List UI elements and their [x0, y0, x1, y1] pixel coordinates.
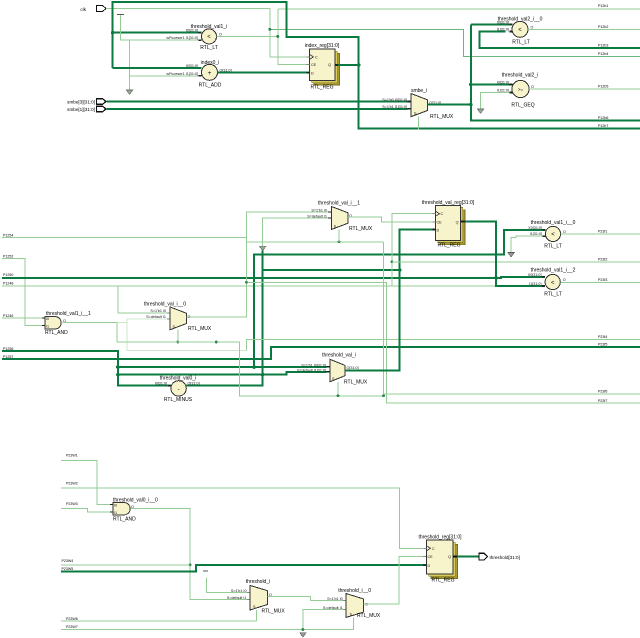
wire P12b3 net from LT2 I1 (thick) [479, 32, 640, 49]
wire val_i S stub [337, 382, 339, 396]
wire val_i__1 S vertical x383.5 [384, 242, 640, 394]
wire net P23f7 from output riser via 282.3 [246, 282, 640, 403]
svg-text:I0[31:0]: I0[31:0] [497, 20, 509, 24]
wire net P23f2 [392, 261, 640, 263]
wire threshold_i S down-left to P23W6 [61, 610, 256, 621]
wire val_i__1 output jog to reg CE [348, 217, 433, 222]
svg-text:P23W2: P23W2 [66, 482, 78, 486]
svg-text:RTL_REG: RTL_REG [438, 243, 461, 249]
wire net P23W3 to AND I1 [61, 508, 113, 512]
wire net P1256 (thick) down to MINUS I0 [2, 351, 171, 386]
svg-text:RTL_MUX: RTL_MUX [344, 380, 368, 386]
svg-text:I0: I0 [114, 504, 117, 508]
svg-text:I1[31:0]: I1[31:0] [529, 282, 541, 286]
port threshold[31:0] output [479, 553, 520, 560]
wire branch to threshold_val_reg D (thick) [263, 230, 433, 271]
svg-text:RTL_MUX: RTL_MUX [262, 609, 286, 615]
svg-text:S=1'b1 I1[31:0]: S=1'b1 I1[31:0] [382, 105, 407, 109]
register threshold_reg[31:0] RTL_REG [418, 534, 462, 583]
wire smbe_i S stub [418, 117, 420, 130]
ground arrow below GEQ I1 [477, 109, 484, 114]
svg-text:S=1'b1 I0: S=1'b1 I0 [311, 208, 327, 212]
svg-text:C: C [441, 212, 444, 216]
arrow-net stub feeding LT1__0 I1 [511, 236, 542, 253]
node junction index_reg Q [357, 63, 361, 67]
svg-text:S=default I1: S=default I1 [146, 315, 166, 319]
svg-text:I0[31:0]: I0[31:0] [186, 29, 198, 33]
wire net P23W7 ground line [61, 617, 353, 629]
gate threshold_val1_i__1 RTL_AND [42, 311, 91, 336]
svg-text:CE: CE [437, 220, 443, 224]
svg-text:D: D [311, 71, 314, 75]
wire smbe_i output to vertical (thick) [428, 104, 471, 106]
svg-text:RTL_LT: RTL_LT [512, 40, 530, 46]
wire ADD output to index_reg D (thick) [218, 72, 310, 74]
svg-text:threshold[31:0]: threshold[31:0] [490, 555, 520, 560]
svg-text:S=default I1: S=default I1 [227, 596, 247, 600]
wire branch val_i I1 (thick) [118, 372, 327, 375]
svg-text:P1248: P1248 [3, 282, 13, 286]
svg-text:threshold_i__0: threshold_i__0 [338, 588, 371, 594]
mux threshold_val_i__1 RTL_MUX [307, 201, 373, 233]
svg-text:RTL_MUX: RTL_MUX [349, 226, 373, 232]
svg-text:P12b6: P12b6 [598, 116, 608, 120]
port clk [80, 6, 106, 13]
wire net P1257 (thick) jog to P23f5 [2, 347, 640, 359]
wire net P23W2 to threshold_reg C [61, 488, 427, 548]
svg-text:C: C [432, 547, 435, 551]
svg-text:S=default I1: S=default I1 [307, 214, 327, 218]
wire ADD I0 (thick) [113, 67, 202, 69]
svg-text:P23W7: P23W7 [66, 625, 78, 629]
svg-text:S=default I1[31:0]: S=default I1[31:0] [297, 368, 326, 372]
svg-text:D: D [428, 564, 431, 568]
svg-text:RTL_GEQ: RTL_GEQ [511, 103, 534, 109]
wire I1 feed vertical from ground line [303, 610, 343, 630]
dash mark [203, 570, 208, 572]
svg-text:P23f2: P23f2 [598, 258, 607, 262]
svg-text:threshold_i: threshold_i [246, 579, 270, 585]
svg-text:smbe_i: smbe_i [411, 88, 427, 94]
svg-text:CE: CE [311, 63, 317, 67]
svg-text:RTL_AND: RTL_AND [45, 330, 68, 336]
register threshold_val_reg[31:0] RTL_REG [422, 200, 475, 248]
wire net P23W4 joining AND-out vertical [61, 564, 190, 566]
svg-text:P23f4: P23f4 [598, 335, 607, 339]
wire bus 254.3 left end handled above; op-amp threshold_val1_i__0 RTL_LT [528, 220, 575, 250]
wire LT1 output to index_reg CE [217, 35, 278, 37]
svg-text:P23W1: P23W1 [66, 454, 78, 458]
svg-text:wPcoeser1 I1[31:0]: wPcoeser1 I1[31:0] [166, 72, 198, 76]
wire LT2 output to P12b2 [528, 28, 640, 30]
wire threshold_i I0 feed [206, 578, 247, 593]
svg-text:Q: Q [328, 63, 331, 67]
op-amp threshold_val0_i RTL_MINUS [155, 376, 200, 403]
wire net P1252 to AND I1 [2, 258, 44, 325]
svg-text:threshold_reg[31:0]: threshold_reg[31:0] [418, 534, 462, 540]
svg-text:P23f3: P23f3 [598, 278, 607, 282]
svg-text:+: + [208, 70, 212, 77]
svg-text:S=1'b1 I0: S=1'b1 I0 [150, 309, 166, 313]
wire bus-light to val_i__0 I0 [118, 286, 167, 313]
svg-text:RTL_MUX: RTL_MUX [430, 114, 454, 120]
wire threshold_i__0 output up to threshold_reg CE [364, 557, 427, 605]
wire LT1__0 output P23f1 [561, 233, 640, 235]
wire net P1248 to LT1__2 I1 [2, 285, 545, 287]
wire net P23W1 to AND I0 [61, 461, 113, 505]
svg-text:P12b3: P12b3 [598, 44, 608, 48]
arrow net continuation below ADD I1 [126, 90, 133, 95]
svg-text:wPcoeser1 I1[31:0]: wPcoeser1 I1[31:0] [166, 36, 198, 40]
svg-text:P12b2: P12b2 [598, 25, 608, 29]
wire branch val_i I0 (thick) [118, 366, 327, 368]
svg-text:>=: >= [518, 87, 524, 92]
register index_reg[31:0] RTL_REG [305, 43, 340, 91]
wire threshold_reg Q to output port (thick) [457, 556, 479, 558]
svg-text:RTL_REG: RTL_REG [432, 578, 455, 584]
mux smbe_i RTL_MUX [382, 88, 454, 120]
svg-text:RTL_ADD: RTL_ADD [199, 83, 222, 89]
ground arrow bottom [300, 633, 307, 638]
wire GEQ I1 from ground [481, 93, 510, 110]
wire bus vertical x254.2 to thick bus 254.3 feeding LT1__0 I0 [254, 230, 545, 367]
wire net P1246 to AND I0 [2, 317, 44, 319]
svg-text:RTL_MUX: RTL_MUX [188, 326, 212, 332]
svg-text:RTL_AND: RTL_AND [113, 517, 136, 523]
wire LT1-out net up to P12b1 [278, 8, 640, 10]
node clk branch at x269.8 [270, 9, 307, 57]
svg-text:O: O [563, 278, 566, 282]
wire val_i output to P23f6 (thick then down) [345, 270, 400, 370]
svg-text:<: < [518, 28, 522, 34]
svg-text:S=1'b1 I0: S=1'b1 I0 [327, 597, 343, 601]
svg-text:I1: I1 [114, 511, 117, 515]
svg-text:X0[31:0]: X0[31:0] [528, 273, 542, 277]
svg-text:I0[31:0]: I0[31:0] [155, 382, 167, 386]
wire AND out down to threshold_i I0 [131, 509, 248, 600]
wire bus P1250 (thick) with jog to LT1__2 I0 [2, 277, 545, 278]
svg-text:P23W5: P23W5 [62, 567, 74, 571]
wire clk net (light) to right edge P12b1 [106, 8, 270, 10]
svg-text:S=1'b1 I0[31:0]: S=1'b1 I0[31:0] [301, 363, 326, 367]
svg-text:RTL_MINUS: RTL_MINUS [164, 397, 193, 403]
svg-text:threshold_val_i: threshold_val_i [322, 352, 356, 358]
wire P12b4 branch (medium green) [270, 29, 640, 56]
svg-text:P23f7: P23f7 [598, 399, 607, 403]
svg-text:P23f1: P23f1 [598, 230, 607, 234]
svg-text:P1246: P1246 [3, 314, 13, 318]
svg-text:O: O [531, 25, 534, 29]
svg-text:CE: CE [428, 555, 434, 559]
mux threshold_i__0 RTL_MUX [323, 588, 381, 619]
wire LT1 I0 (thick) [113, 32, 202, 34]
svg-text:S=1'b0 I0[31:0]: S=1'b0 I0[31:0] [382, 98, 407, 102]
mux threshold_i RTL_MUX [227, 579, 286, 615]
svg-text:I0[31:0]: I0[31:0] [497, 81, 509, 85]
svg-text:threshold_val_i__0: threshold_val_i__0 [144, 302, 186, 308]
wire GEQ output to P12b5 [529, 88, 640, 90]
svg-text:threshold_val2_i: threshold_val2_i [502, 73, 538, 79]
svg-text:Q: Q [456, 220, 459, 224]
svg-text:P12b5: P12b5 [598, 85, 608, 89]
svg-text:P1250: P1250 [3, 273, 13, 277]
op-amp threshold_val2_i__0 RTL_LT [497, 17, 543, 46]
op-amp index0_i RTL_ADD [166, 60, 231, 89]
svg-text:Q: Q [448, 555, 451, 559]
op-amp threshold_val1_i__2 RTL_LT [528, 268, 576, 298]
wire AND out to val_i__0 I1 and P23f4 [63, 323, 117, 343]
svg-text:P12b4: P12b4 [598, 52, 608, 56]
svg-text:clk: clk [80, 7, 86, 12]
svg-text:S=1'b1 I0: S=1'b1 I0 [231, 589, 247, 593]
svg-text:P23f5: P23f5 [598, 343, 607, 347]
wire s-line horizontal to vertical x238.5 [117, 342, 384, 396]
port smbe[3][31:0] [67, 99, 106, 105]
svg-text:threshold_val_i__1: threshold_val_i__1 [318, 201, 360, 207]
svg-text:RTL_LT: RTL_LT [544, 292, 562, 298]
wire smbe3 to mux I0 (thick) [107, 101, 408, 103]
wire val_i__1 I1 from arrow-net (minus output) [263, 218, 328, 246]
svg-text:S=default I1: S=default I1 [323, 606, 343, 610]
svg-text:I1: I1 [46, 325, 49, 329]
svg-text:X0[31:0]: X0[31:0] [528, 226, 542, 230]
mux threshold_val_i__0 RTL_MUX [144, 302, 212, 333]
svg-text:P23W6: P23W6 [66, 617, 78, 621]
op-amp threshold_val1_i RTL_LT [166, 24, 227, 51]
svg-text:-: - [178, 387, 180, 393]
svg-text:smbe[3][31:0]: smbe[3][31:0] [67, 100, 95, 105]
svg-text:O[31:0]: O[31:0] [188, 382, 200, 386]
wire val_reg Q down to LT1__2 I1 (thick) [465, 222, 543, 286]
wire val_i__1 S stub [338, 230, 340, 242]
svg-text:P23f6: P23f6 [598, 390, 607, 394]
svg-text:P12b1: P12b1 [598, 4, 608, 8]
svg-text:C: C [315, 55, 318, 59]
wire val_i__0 S stub to line [177, 330, 179, 342]
svg-text:O: O [219, 32, 222, 36]
gate threshold_val0_i__0 RTL_AND [110, 498, 158, 523]
svg-text:RTL_MUX: RTL_MUX [357, 613, 381, 619]
mux threshold_val_i RTL_MUX [297, 352, 368, 385]
svg-text:smbe[1][31:0]: smbe[1][31:0] [67, 107, 95, 112]
wire vertical feed LT2/GEQ + P12b6 (thick) [471, 24, 640, 120]
svg-text:P1254: P1254 [3, 234, 13, 238]
wire const to LT1 I1 / ADD I1 [121, 15, 202, 40]
svg-text:RTL_REG: RTL_REG [311, 85, 334, 91]
svg-text:I1[31:0]: I1[31:0] [497, 28, 509, 32]
svg-text:index_reg[31:0]: index_reg[31:0] [305, 43, 340, 49]
svg-text:RTL_LT: RTL_LT [200, 45, 218, 51]
constant const0 T symbol [117, 14, 124, 16]
svg-text:P23W3: P23W3 [66, 502, 78, 506]
wire net P23W5 (thick) jog to threshold_reg D [61, 565, 426, 571]
wire MINUS output up arrow-net vertical (thick) [186, 251, 262, 386]
svg-text:<: < [207, 35, 211, 41]
svg-text:<: < [551, 232, 555, 238]
svg-text:P23W4: P23W4 [62, 559, 74, 563]
svg-text:<: < [551, 280, 555, 286]
wire LT1__2 output P23f3 [560, 281, 640, 283]
svg-text:O: O [563, 230, 566, 234]
wire val_i__0 output up to S-line of val_i__1 [186, 242, 383, 317]
node junction LT1 I0 [111, 31, 115, 35]
svg-text:P1252: P1252 [3, 254, 13, 258]
arrow top of vertical [259, 246, 266, 251]
port smbe[1][31:0] [67, 106, 106, 112]
svg-text:I0: I0 [46, 317, 49, 321]
wire threshold_i output jog to threshold_i__0 I0 [268, 597, 347, 601]
wire smbe1 to mux I1 (thick) [107, 108, 408, 110]
wire net P1254 to LT I1 [2, 237, 246, 239]
svg-text:P12b7: P12b7 [598, 124, 608, 128]
svg-text:O: O [531, 85, 534, 89]
wire index_reg Q to bus (thick) [338, 64, 359, 66]
svg-text:D: D [437, 229, 440, 233]
wire clock net from light bus up to reg C, branch P23f2 [392, 214, 433, 286]
svg-text:RTL_LT: RTL_LT [544, 244, 562, 250]
op-amp threshold_val2_i RTL_GEQ [497, 73, 539, 109]
wire index bus thick: vertical left, top run, down, right, down, to P12b7 [113, 2, 640, 129]
